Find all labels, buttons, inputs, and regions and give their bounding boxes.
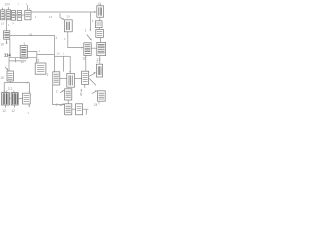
wire G to M3 — [85, 55, 87, 71]
wire B3 right then down — [83, 109, 89, 114]
wire horizontal y57.7 — [9, 57, 37, 59]
svg-text:12: 12 — [2, 109, 6, 113]
arrow diagonal into G — [87, 35, 91, 40]
diagonal M3 to R3 — [89, 73, 95, 76]
svg-text:24: 24 — [94, 103, 98, 107]
block M3 — [82, 71, 89, 84]
svg-text:11: 11 — [29, 33, 33, 37]
block TR2 — [95, 21, 102, 28]
svg-text:1: 1 — [85, 29, 87, 33]
svg-text:100: 100 — [4, 2, 10, 6]
svg-text:1: 1 — [55, 36, 57, 40]
svg-text:2 2: 2 2 — [8, 87, 13, 91]
lead to D top — [6, 90, 8, 92]
stub above A5 — [27, 5, 29, 10]
svg-text:20: 20 — [66, 14, 70, 18]
wire A4-A5 — [22, 14, 25, 16]
wire A1-A2 — [5, 14, 6, 16]
wire G-H — [91, 47, 97, 49]
block G — [84, 43, 91, 56]
block B1 — [65, 89, 72, 100]
svg-text:12: 12 — [11, 109, 15, 113]
wire A2-A3 — [10, 14, 13, 16]
svg-text:1: 1 — [47, 73, 49, 77]
stub below F with arrow — [28, 104, 30, 107]
svg-text:13: 13 — [49, 15, 53, 19]
block M1 — [53, 72, 60, 85]
svg-text:12: 12 — [82, 57, 86, 61]
arrowhead into TR1 — [94, 11, 97, 13]
block A2 — [6, 10, 10, 20]
stub above R3 — [99, 56, 101, 65]
wire long top horizontal — [31, 11, 95, 13]
block A3 — [11, 11, 15, 21]
svg-text:10: 10 — [1, 21, 5, 25]
wire LM right to center vertical — [10, 34, 55, 36]
wire B2-B3 — [72, 108, 76, 110]
block LL — [7, 71, 13, 81]
wire U bottom to G — [68, 32, 82, 48]
vertical x63.6 — [63, 56, 65, 71]
stub above A2 — [7, 7, 9, 10]
svg-text:21: 21 — [36, 59, 40, 63]
svg-text:114: 114 — [4, 53, 11, 58]
svg-text:10: 10 — [0, 43, 4, 47]
diagonal into B2 — [60, 104, 64, 105]
vertical x70.2 with arrow into M2 — [69, 56, 71, 72]
block LM — [4, 31, 10, 39]
vertical center x54.5 — [54, 35, 56, 71]
wire M2-M3 — [74, 77, 81, 79]
lead to E top — [13, 90, 14, 92]
block D hatched — [2, 93, 10, 105]
stub TR3-H — [99, 37, 101, 42]
wire vertical right x90 — [89, 12, 91, 29]
block B2 — [65, 104, 72, 115]
block B3 — [76, 104, 83, 115]
wire LL bottom distribution — [4, 81, 29, 92]
diagonal into B1 — [60, 91, 63, 93]
stub TR2-TR3 — [98, 28, 100, 30]
lead above L2 — [24, 44, 26, 46]
wire M1 bottom down to B2 — [53, 85, 65, 105]
stub TR1-TR2 — [99, 17, 101, 21]
svg-text:14: 14 — [56, 51, 60, 55]
block A4 — [17, 11, 21, 21]
block A5 — [25, 10, 31, 19]
wire LM bottom arrow — [6, 39, 8, 42]
wire A3-A4 — [16, 14, 18, 16]
svg-text:2: 2 — [56, 103, 58, 107]
wire down into LL — [8, 58, 10, 71]
stub below E — [14, 105, 16, 108]
wire y56.4 right branch — [55, 55, 71, 57]
label dashes below M3 — [80, 89, 82, 96]
wire horizontal y54.3 to center vertical — [37, 53, 55, 55]
stub above A1 — [2, 8, 4, 10]
wire M1-M2 — [60, 77, 67, 79]
block A1 — [1, 10, 5, 20]
block H — [97, 42, 106, 55]
block CB — [35, 63, 46, 74]
lead hook into U — [60, 13, 63, 19]
svg-text:2: 2 — [96, 59, 98, 63]
wire horizontal y60.9 under L2 — [9, 60, 26, 62]
svg-text:10: 10 — [0, 76, 4, 80]
block TR3 — [96, 29, 104, 37]
stub down at x15.5 — [15, 58, 17, 63]
block BR — [98, 91, 106, 101]
stub below M3 — [84, 84, 86, 88]
block TR1 — [97, 6, 104, 17]
wire LM right-bottom down — [9, 39, 11, 58]
svg-text:1: 1 — [92, 19, 94, 23]
arrow into F — [29, 91, 31, 93]
svg-text:2: 2 — [56, 90, 58, 94]
stub below D — [4, 105, 6, 108]
stub above TR1 — [99, 3, 101, 5]
block F — [23, 93, 31, 104]
diagonal M3 down-right — [89, 78, 96, 85]
block R3 — [96, 64, 102, 77]
diagonal into BR — [92, 91, 97, 93]
wire A2 down to LM — [5, 20, 7, 31]
wire B1-B2 — [67, 100, 69, 104]
block U — [64, 20, 72, 32]
block M2 — [67, 73, 75, 87]
wire D-E — [9, 97, 11, 99]
wire L2 right then down into CB — [27, 52, 36, 63]
block E hatched — [11, 93, 18, 105]
wire E-F — [18, 97, 22, 99]
block L2 — [20, 46, 27, 59]
arrow lead into LL — [5, 67, 8, 70]
arrow into D — [3, 91, 5, 93]
stub below BR — [98, 101, 100, 104]
